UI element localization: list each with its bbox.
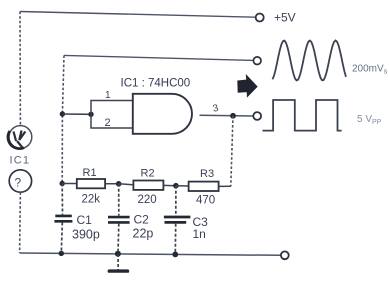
svg-text:R2: R2 xyxy=(141,168,155,180)
wire node A to node B xyxy=(62,113,91,115)
wire: C3 bottom lead xyxy=(174,224,176,254)
svg-text:2: 2 xyxy=(105,117,111,129)
junction: rail / C3 xyxy=(172,252,178,258)
wire: +5V top rail xyxy=(20,12,256,18)
node B junction dot xyxy=(88,112,93,117)
wire: input node vertical (sine corner down through node A to R1/C1) xyxy=(62,55,64,183)
wire: gate output xyxy=(200,114,254,117)
DUT lower circle with ? xyxy=(9,170,31,192)
square waveform xyxy=(263,100,342,131)
wire: C1 top lead xyxy=(61,184,63,215)
svg-text:470: 470 xyxy=(196,194,215,206)
wire to pin 1 xyxy=(91,101,133,115)
svg-text:390p: 390p xyxy=(72,228,100,242)
wire: left vertical from top rail down to DUT xyxy=(19,12,21,126)
wire: feedback vertical (output node down to R3) xyxy=(231,116,233,187)
svg-text:IC1: IC1 xyxy=(10,155,31,167)
resistor R1 xyxy=(77,179,105,188)
wire: sine input horizontal xyxy=(64,55,253,60)
svg-text:IC1 : 74HC00: IC1 : 74HC00 xyxy=(121,78,191,90)
junction: output node xyxy=(230,113,236,119)
junction: R2/R3/C3 node xyxy=(173,183,179,189)
ground bar xyxy=(108,269,130,272)
wire: R3 right lead xyxy=(219,185,231,187)
svg-text:R3: R3 xyxy=(200,168,214,180)
svg-text:22k: 22k xyxy=(82,194,101,206)
junction: node A / R1 / C1 xyxy=(60,181,65,186)
svg-text:1: 1 xyxy=(105,90,111,101)
wire: left vertical down to ground rail xyxy=(19,192,22,253)
capacitor C2 xyxy=(108,216,130,219)
terminal bottom right xyxy=(281,251,289,259)
terminal +5V xyxy=(256,14,264,22)
ground rail (bottom) xyxy=(20,253,282,255)
wire to pin 2 xyxy=(91,114,133,128)
svg-text:?: ? xyxy=(15,176,22,190)
svg-text:220: 220 xyxy=(138,194,157,206)
junction: rail / C1 xyxy=(59,251,64,256)
svg-text:22p: 22p xyxy=(133,227,154,241)
wire: C1 bottom lead xyxy=(61,223,62,254)
wire: R3 left lead xyxy=(176,185,189,187)
junction: R1/R2/C2 node xyxy=(116,181,122,187)
wire: C3 top lead xyxy=(175,186,177,216)
svg-text:C2: C2 xyxy=(134,213,150,227)
wire: C2 top lead xyxy=(118,184,120,216)
svg-text:R1: R1 xyxy=(83,167,97,179)
wire: R1 left lead xyxy=(62,183,77,185)
svg-text:+5V: +5V xyxy=(274,11,296,25)
DUT upper circle (signal source symbol) xyxy=(9,126,32,149)
capacitor C3 xyxy=(164,216,191,219)
NAND gate U1 (IC1 74HC00) body xyxy=(133,94,192,134)
arrow (output indicator) xyxy=(238,75,257,96)
wire: R1-R2 lead xyxy=(105,183,119,185)
node A junction dot xyxy=(60,111,65,116)
capacitor C1 xyxy=(55,215,72,218)
resistor R3 xyxy=(189,182,219,191)
resistor R2 xyxy=(133,181,163,190)
sine waveform xyxy=(273,41,347,81)
svg-text:200mVs: 200mVs xyxy=(352,64,388,76)
svg-text:C1: C1 xyxy=(77,213,93,227)
terminal output xyxy=(253,112,261,120)
junction: rail / C2 / ground xyxy=(115,251,121,257)
wire: R2-R3 lead xyxy=(163,184,176,186)
ground stub wire xyxy=(117,254,119,270)
wire: R2 left lead xyxy=(119,184,134,185)
wire: C2 bottom lead xyxy=(117,224,120,254)
terminal sine input xyxy=(253,57,261,65)
svg-text:1n: 1n xyxy=(193,227,206,241)
